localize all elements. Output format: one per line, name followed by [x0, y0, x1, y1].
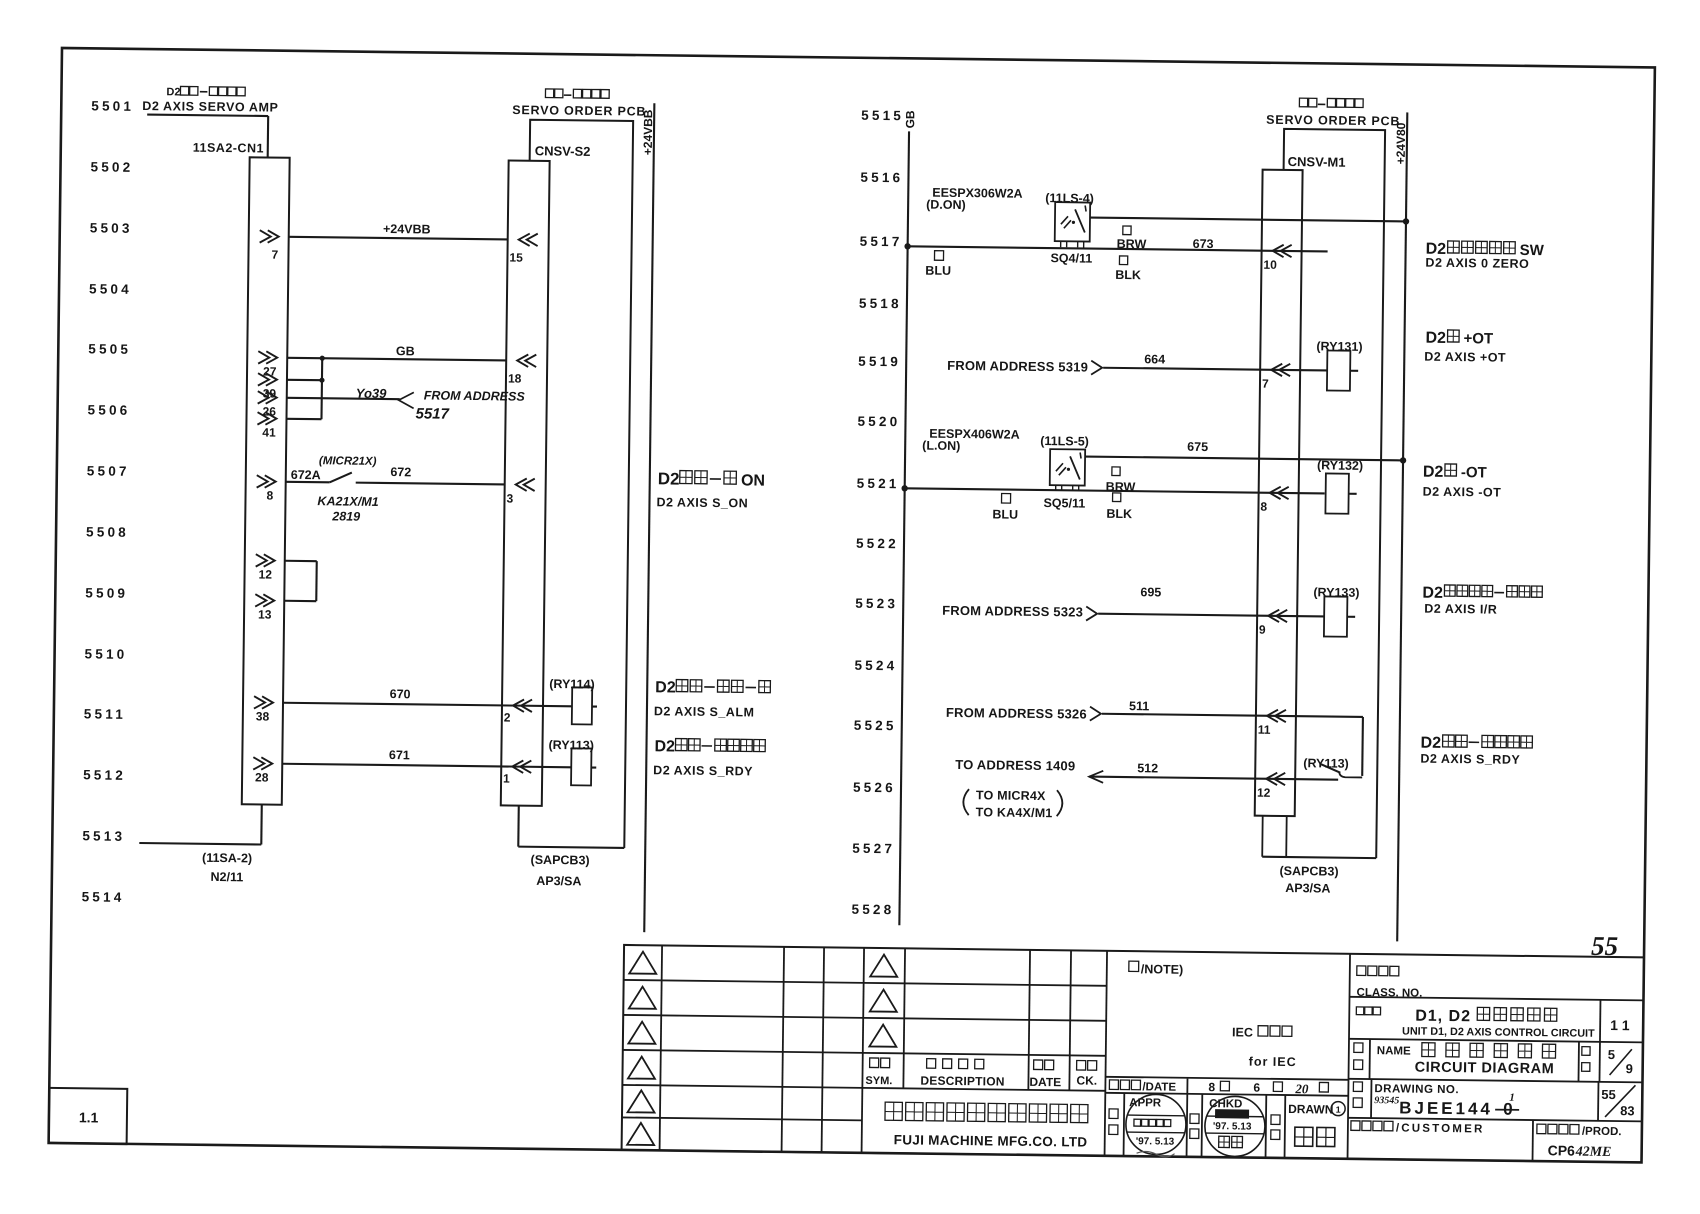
header DATE (japanese)	[1034, 1060, 1054, 1070]
svg-text:Yo39: Yo39	[356, 386, 388, 401]
svg-text:+24VBB: +24VBB	[383, 222, 431, 237]
stamp CHKD circle	[1205, 1096, 1266, 1157]
switch 11LS-4 top line to +24V80	[1090, 218, 1406, 222]
svg-text:TO KA4X/M1: TO KA4X/M1	[976, 805, 1053, 820]
svg-text:5501: 5501	[91, 98, 134, 114]
svg-text:5521: 5521	[857, 476, 900, 492]
svg-text:CLASS. NO.: CLASS. NO.	[1356, 987, 1422, 1000]
label brown (japanese) 5521	[1112, 467, 1120, 476]
svg-text:11: 11	[1258, 723, 1271, 737]
svg-text:1: 1	[1336, 1105, 1341, 1115]
svg-text:2: 2	[504, 710, 511, 724]
svg-text:5519: 5519	[858, 354, 901, 370]
svg-text:7: 7	[1262, 377, 1269, 391]
svg-text:AP3/SA: AP3/SA	[536, 874, 581, 889]
svg-text:SQ4/11: SQ4/11	[1050, 251, 1092, 266]
svg-text:D2 AXIS S_RDY: D2 AXIS S_RDY	[1420, 752, 1520, 767]
svg-text:10: 10	[1263, 258, 1277, 272]
label date (japanese)/DATE	[1109, 1080, 1140, 1090]
revision table left verticals	[660, 945, 864, 1152]
svg-text:5525: 5525	[854, 718, 897, 734]
svg-text:673: 673	[1193, 237, 1214, 251]
svg-text:5504: 5504	[89, 281, 132, 297]
svg-text:FUJI MACHINE MFG.CO. LTD: FUJI MACHINE MFG.CO. LTD	[894, 1132, 1088, 1149]
relay RY132 box	[1325, 473, 1348, 513]
svg-text:BRW: BRW	[1106, 480, 1136, 494]
svg-text:670: 670	[390, 687, 411, 701]
svg-text:+24VBB: +24VBB	[641, 109, 656, 155]
wire 664	[1103, 368, 1327, 371]
svg-text:TO ADDRESS 1409: TO ADDRESS 1409	[955, 757, 1075, 773]
svg-text:(RY133): (RY133)	[1313, 585, 1359, 600]
relay RY113 stub	[591, 766, 596, 768]
arrow pin 12	[256, 554, 275, 567]
svg-text:(SAPCB3): (SAPCB3)	[531, 853, 590, 868]
title block outer box	[622, 945, 1644, 1162]
stamp row cell lines	[1124, 1093, 1286, 1158]
servo amp drop wire	[267, 116, 270, 157]
wire 672A segment	[286, 481, 330, 484]
header DESCRIPTION (japanese)	[927, 1059, 984, 1069]
svg-text:5520: 5520	[857, 414, 900, 430]
svg-text:(MICR21X): (MICR21X)	[319, 455, 377, 468]
label denki kairo senzu (japanese)	[1422, 1043, 1556, 1058]
svg-text:9: 9	[1259, 623, 1266, 637]
svg-text:SYM.: SYM.	[865, 1075, 892, 1087]
junction dot GB 5517	[904, 243, 910, 249]
revision triangle left 1	[629, 952, 656, 974]
info block row lines	[1348, 997, 1643, 1122]
servo amp underline	[147, 115, 268, 116]
junction dot +24V80 11LS-4	[1403, 218, 1409, 224]
svg-text:5510: 5510	[85, 646, 128, 662]
connector 11SA2-CN1 bottom drop	[260, 804, 263, 844]
revision triangle left 2	[629, 986, 656, 1008]
wire SAPCB3 bottom link right	[1262, 857, 1376, 858]
svg-text:D2: D2	[654, 738, 675, 755]
svg-text:AP3/SA: AP3/SA	[1285, 881, 1330, 896]
svg-text:'97. 5.13: '97. 5.13	[1213, 1121, 1252, 1132]
svg-text:+24V80: +24V80	[1394, 122, 1409, 164]
svg-text:DESCRIPTION: DESCRIPTION	[920, 1074, 1004, 1089]
bjee strikethrough	[1495, 1109, 1519, 1111]
arrow pin 15	[519, 233, 538, 246]
revision triangle left 4	[628, 1056, 655, 1078]
label blue (japanese) 5517	[934, 251, 943, 261]
svg-text:5513: 5513	[82, 828, 125, 844]
svg-text:N2/11: N2/11	[210, 870, 243, 884]
arrow pin 13	[255, 594, 274, 607]
svg-text:671: 671	[389, 748, 410, 762]
wire 5513 line	[139, 843, 261, 844]
svg-text:6: 6	[1253, 1081, 1260, 1095]
net GB vertical line	[899, 131, 909, 925]
servo order pcb bracket	[521, 120, 633, 848]
wire pin 13 loop	[284, 600, 316, 602]
arrow pin 2	[513, 699, 532, 712]
label blue (japanese) 5521	[1002, 494, 1011, 504]
relay RY114 box	[572, 687, 592, 724]
limit switch 11LS-4	[1055, 202, 1091, 247]
arrow from address 5323	[1086, 607, 1097, 621]
svg-text:675: 675	[1187, 440, 1208, 454]
svg-text:5507: 5507	[87, 463, 130, 479]
svg-text:BLK: BLK	[1106, 507, 1132, 521]
arrow from address 5319	[1091, 361, 1102, 375]
svg-text:CNSV-M1: CNSV-M1	[1288, 154, 1346, 170]
svg-text:511: 511	[1129, 699, 1149, 713]
svg-text:5503: 5503	[90, 220, 133, 236]
svg-text:D2 AXIS -OT: D2 AXIS -OT	[1423, 485, 1502, 500]
svg-text:695: 695	[1140, 585, 1161, 599]
arrow pin 28	[253, 757, 272, 770]
label shousa check (japanese)	[1190, 1114, 1199, 1124]
connector CNSV-S2 box	[501, 160, 550, 805]
connector CNSV-M1 bottom tab	[1262, 816, 1286, 857]
svg-text:9: 9	[1626, 1061, 1633, 1076]
label sakuzu drawn (japanese)	[1271, 1115, 1280, 1125]
stamp CHKD blob	[1215, 1109, 1249, 1118]
revision triangle left 5	[628, 1090, 655, 1112]
relay RY113 contact blade	[1320, 764, 1340, 773]
svg-text:8: 8	[1208, 1080, 1215, 1094]
relay RY132 stub	[1349, 493, 1357, 495]
relay RY113 contact vertical	[1361, 717, 1364, 776]
junction dot 39 branch	[319, 378, 324, 383]
wire 5521 GB to pin 8	[905, 488, 1325, 493]
svg-text:15: 15	[509, 250, 523, 264]
svg-text:BJEE144: BJEE144	[1399, 1098, 1493, 1118]
svg-text:BLU: BLU	[925, 264, 951, 278]
svg-text:5511: 5511	[84, 706, 126, 722]
arrow pin 8 right	[1270, 487, 1289, 500]
arrow pin 7 right	[1271, 364, 1290, 377]
page column (japanese)	[1577, 1042, 1579, 1082]
wire pin 26 to address 5517	[287, 398, 400, 399]
svg-text:'97. 5.13: '97. 5.13	[1136, 1136, 1175, 1147]
svg-text:D2 AXIS SERVO AMP: D2 AXIS SERVO AMP	[142, 99, 278, 115]
svg-text:(RY113): (RY113)	[548, 738, 594, 753]
svg-text:1: 1	[503, 771, 510, 785]
svg-text:18: 18	[508, 371, 522, 385]
svg-text:5509: 5509	[85, 585, 128, 601]
header SYM (japanese+SYM.)	[870, 1058, 890, 1068]
customer prod separator	[1532, 1120, 1535, 1161]
arrow pin 3	[516, 478, 535, 491]
svg-text:D2 AXIS S_ALM: D2 AXIS S_ALM	[654, 704, 755, 719]
label black (japanese) 5521	[1113, 493, 1121, 502]
svg-text:5506: 5506	[87, 402, 130, 418]
svg-text:D2: D2	[166, 86, 180, 98]
servo order pcb bracket right	[1275, 129, 1385, 858]
arrow to 5517	[399, 392, 414, 408]
relay RY131 stub	[1350, 370, 1358, 372]
label shonin approval (japanese)	[1109, 1109, 1118, 1119]
svg-text:5505: 5505	[88, 341, 131, 357]
svg-text:CP6: CP6	[1548, 1142, 1576, 1158]
name column (japanese)	[1354, 1043, 1363, 1053]
arrow pin 41	[257, 412, 276, 425]
svg-text:55: 55	[1601, 1087, 1616, 1102]
svg-text:5512: 5512	[83, 767, 126, 783]
paren left micr4x	[963, 789, 969, 815]
svg-text:5518: 5518	[859, 296, 902, 312]
svg-text:FROM ADDRESS 5319: FROM ADDRESS 5319	[947, 358, 1088, 375]
svg-text:/NOTE): /NOTE)	[1141, 962, 1184, 977]
svg-text:-OT: -OT	[1461, 464, 1487, 481]
svg-text:41: 41	[262, 425, 276, 439]
date row box lines	[1105, 951, 1350, 1159]
stamp APPR band text	[1134, 1119, 1171, 1126]
drawn circle mark	[1331, 1102, 1345, 1116]
svg-text:+OT: +OT	[1463, 330, 1493, 347]
svg-text:(L.ON): (L.ON)	[922, 439, 960, 453]
connector 11SA2-CN1 box	[242, 157, 290, 804]
svg-text:(RY132): (RY132)	[1317, 458, 1363, 473]
label user customer (japanese)	[1351, 1121, 1393, 1131]
svg-text:SQ5/11: SQ5/11	[1043, 496, 1085, 511]
svg-text:672A: 672A	[291, 468, 321, 482]
svg-text:CNSV-S2: CNSV-S2	[535, 143, 591, 159]
wire 670 pin38 to pin2	[283, 703, 572, 707]
arrow pin 38	[254, 696, 273, 709]
svg-text:(SAPCB3): (SAPCB3)	[1279, 864, 1338, 879]
label kishumei (japanese)	[1356, 1007, 1380, 1015]
note box area label	[1129, 961, 1139, 971]
drawn signature esaka (japanese handwritten)	[1295, 1127, 1335, 1146]
relay RY113 box (left)	[571, 748, 591, 785]
svg-text:(D.ON): (D.ON)	[926, 198, 966, 212]
label prod no (japanese)	[1537, 1124, 1579, 1134]
svg-text:CIRCUIT DIAGRAM: CIRCUIT DIAGRAM	[1415, 1060, 1555, 1078]
svg-text:5515: 5515	[861, 108, 904, 124]
svg-text:(RY131): (RY131)	[1316, 339, 1362, 354]
svg-text:5514: 5514	[82, 889, 125, 905]
svg-text:(11LS-5): (11LS-5)	[1040, 434, 1089, 449]
svg-text:2819: 2819	[331, 509, 360, 523]
arrow pin 10	[1273, 245, 1292, 258]
wire 511	[1102, 714, 1363, 717]
svg-text:5524: 5524	[854, 658, 897, 674]
zuban column (japanese)	[1353, 1082, 1362, 1092]
label black (japanese) 5517	[1119, 256, 1127, 265]
svg-text:512: 512	[1137, 761, 1158, 775]
revision triangle left 6	[627, 1123, 654, 1145]
svg-text:12: 12	[258, 567, 272, 581]
relay RY133 stub	[1347, 616, 1355, 618]
junction dot GB branch	[320, 356, 325, 361]
switch contact MICR21X blade	[330, 472, 352, 482]
switch 11LS-5 top line to +24V80	[1085, 457, 1403, 461]
svg-text:5508: 5508	[86, 524, 129, 540]
svg-text:DATE: DATE	[1029, 1075, 1061, 1089]
revision table left horizontals	[622, 980, 864, 1120]
svg-text:IEC: IEC	[1232, 1025, 1253, 1039]
revision triangle right 3	[869, 1024, 896, 1046]
svg-text:D2 AXIS S_ON: D2 AXIS S_ON	[656, 495, 748, 510]
svg-text:8: 8	[266, 489, 273, 503]
svg-text:(11SA-2): (11SA-2)	[202, 851, 252, 866]
arrow pin 39	[258, 373, 277, 386]
relay RY131 box	[1327, 350, 1350, 390]
cell 11 separator	[1599, 1000, 1602, 1042]
net +24V80 vertical line	[1397, 112, 1407, 941]
svg-text:83: 83	[1620, 1103, 1635, 1118]
svg-text:8: 8	[1260, 500, 1267, 514]
svg-text:KA21X/M1: KA21X/M1	[317, 494, 378, 509]
svg-text:CK.: CK.	[1076, 1073, 1097, 1087]
svg-text:664: 664	[1144, 352, 1165, 366]
svg-text:DRAWN: DRAWN	[1288, 1102, 1333, 1117]
arrow pin 26	[258, 391, 277, 404]
svg-text:12: 12	[1257, 786, 1271, 800]
relay RY133 box	[1324, 596, 1347, 636]
svg-text:BLU: BLU	[992, 507, 1018, 521]
svg-text:/CUSTOMER: /CUSTOMER	[1396, 1122, 1485, 1135]
svg-text:/PROD.: /PROD.	[1582, 1126, 1622, 1138]
svg-text:5517: 5517	[860, 234, 903, 250]
wire SAPCB3 bottom link	[518, 847, 624, 848]
svg-text:for IEC: for IEC	[1249, 1055, 1297, 1070]
junction dot +24V80 11LS-5	[1400, 457, 1406, 463]
label servo order pcb right (japanese)	[1299, 98, 1317, 107]
revision triangle left 3	[628, 1021, 655, 1043]
wire +24VBB pin7 to pin15	[289, 237, 508, 240]
branch vertical 27-39-41	[320, 358, 323, 419]
net +24VBB vertical line	[644, 103, 654, 932]
wire pin 39 branch	[287, 379, 322, 382]
label servo order pcb (japanese)	[545, 89, 563, 98]
label class no (japanese)	[1357, 966, 1399, 976]
revision table right horizontals	[862, 983, 1106, 1091]
relay RY114 stub	[592, 705, 597, 707]
wire pin 12 loop	[285, 560, 317, 562]
svg-text:5527: 5527	[852, 841, 895, 857]
paren right micr4x	[1057, 790, 1063, 816]
svg-text:UNIT D1, D2 AXIS CONTROL CIRCU: UNIT D1, D2 AXIS CONTROL CIRCUIT	[1402, 1025, 1595, 1039]
arrow from address 5326	[1090, 707, 1101, 721]
svg-text:3: 3	[506, 491, 513, 505]
revision triangle right 1	[870, 954, 897, 976]
svg-text:NAME: NAME	[1377, 1045, 1411, 1057]
arrow to address 1409	[1089, 771, 1103, 783]
wire 672 segment	[356, 483, 505, 485]
svg-text:5517: 5517	[415, 405, 449, 422]
arrow pin 11	[1267, 710, 1286, 723]
svg-text:GB: GB	[396, 344, 415, 358]
arrow pin 12	[1266, 773, 1285, 786]
svg-text:D2: D2	[1421, 735, 1442, 752]
svg-text:20: 20	[1294, 1081, 1309, 1096]
svg-text:5523: 5523	[855, 596, 898, 612]
svg-text:D2 AXIS +OT: D2 AXIS +OT	[1424, 350, 1506, 365]
limit switch 11LS-5	[1050, 449, 1085, 490]
svg-text:1 1: 1 1	[1610, 1017, 1630, 1033]
svg-text:13: 13	[258, 607, 272, 621]
svg-text:TO MICR4X: TO MICR4X	[976, 788, 1046, 803]
cell 55/83 separator	[1597, 1082, 1599, 1121]
svg-text:5528: 5528	[851, 902, 894, 918]
wire GB pin27 to pin18	[287, 358, 506, 361]
svg-text:672: 672	[390, 465, 411, 479]
arrow pin 27	[258, 351, 277, 364]
svg-text:D1, D2: D1, D2	[1415, 1008, 1471, 1026]
svg-text:11SA2-CN1: 11SA2-CN1	[193, 141, 264, 156]
stamp CHKD name yamamoto (japanese)	[1219, 1136, 1243, 1147]
revision table right verticals	[903, 948, 1107, 1155]
relay RY113 contact stub	[1339, 772, 1362, 778]
arrow pin 7	[260, 230, 279, 243]
junction dot GB 5521	[901, 485, 907, 491]
header CK (japanese)	[1077, 1060, 1097, 1070]
connector CNSV-S2 bottom drop	[517, 806, 520, 847]
revision triangle right 2	[870, 989, 897, 1011]
svg-text:28: 28	[255, 770, 269, 784]
svg-text:FROM ADDRESS: FROM ADDRESS	[424, 388, 526, 403]
arrow pin 9	[1268, 610, 1287, 623]
stamp APPR lower squiggle	[1137, 1151, 1175, 1157]
svg-text:BLK: BLK	[1115, 268, 1141, 282]
svg-text:5526: 5526	[853, 780, 896, 796]
svg-text:D2 AXIS 0 ZERO: D2 AXIS 0 ZERO	[1425, 256, 1529, 271]
svg-text:5: 5	[1608, 1047, 1615, 1062]
svg-text:D2: D2	[655, 679, 676, 696]
wire 512	[1089, 777, 1338, 780]
svg-text:FROM ADDRESS 5326: FROM ADDRESS 5326	[946, 705, 1087, 722]
svg-text:SERVO ORDER PCB: SERVO ORDER PCB	[1266, 113, 1400, 129]
connector CNSV-M1 box	[1255, 170, 1303, 816]
svg-text:93545: 93545	[1374, 1095, 1399, 1106]
wire 5517 GB to pin 10	[908, 246, 1328, 251]
svg-text:(RY113): (RY113)	[1303, 756, 1349, 771]
company name fuji machine (japanese)	[885, 1102, 1088, 1123]
svg-text:5502: 5502	[90, 159, 133, 175]
svg-text:5522: 5522	[856, 536, 899, 552]
svg-text:ON: ON	[741, 472, 765, 489]
svg-text:GB: GB	[903, 110, 917, 129]
svg-text:5516: 5516	[860, 170, 903, 186]
wire pin 41 branch	[286, 418, 321, 421]
svg-text:38: 38	[256, 709, 270, 723]
svg-text:FROM ADDRESS 5323: FROM ADDRESS 5323	[942, 603, 1083, 620]
svg-text:D2 AXIS I/R: D2 AXIS I/R	[1424, 602, 1497, 617]
svg-text:1.1: 1.1	[79, 1109, 99, 1125]
svg-text:(RY114): (RY114)	[549, 677, 595, 692]
svg-text:7: 7	[271, 248, 278, 262]
loop vertical 12-13	[315, 561, 318, 601]
svg-text:D2: D2	[1422, 585, 1443, 602]
arrow pin 8	[257, 475, 276, 488]
wire 671 pin28 to pin1	[282, 764, 571, 768]
svg-text:DRAWING NO.: DRAWING NO.	[1374, 1083, 1459, 1096]
sheet 1.1 box	[49, 1088, 128, 1144]
wire 695	[1098, 614, 1324, 617]
svg-text:D2: D2	[1425, 330, 1446, 347]
arrow pin 18	[517, 354, 536, 367]
svg-text:D2: D2	[658, 469, 680, 488]
label brown (japanese) 5517	[1123, 226, 1131, 235]
arrow pin 1	[512, 760, 531, 773]
svg-text:1: 1	[1509, 1092, 1515, 1104]
svg-text:D2: D2	[1423, 464, 1444, 481]
stamp APPR circle	[1126, 1094, 1187, 1155]
svg-text:BRW: BRW	[1117, 237, 1147, 251]
svg-text:D2 AXIS S_RDY: D2 AXIS S_RDY	[653, 763, 753, 778]
svg-text:SERVO ORDER PCB: SERVO ORDER PCB	[512, 103, 646, 119]
svg-text:42ME: 42ME	[1575, 1145, 1612, 1160]
svg-text:/DATE: /DATE	[1142, 1081, 1176, 1093]
